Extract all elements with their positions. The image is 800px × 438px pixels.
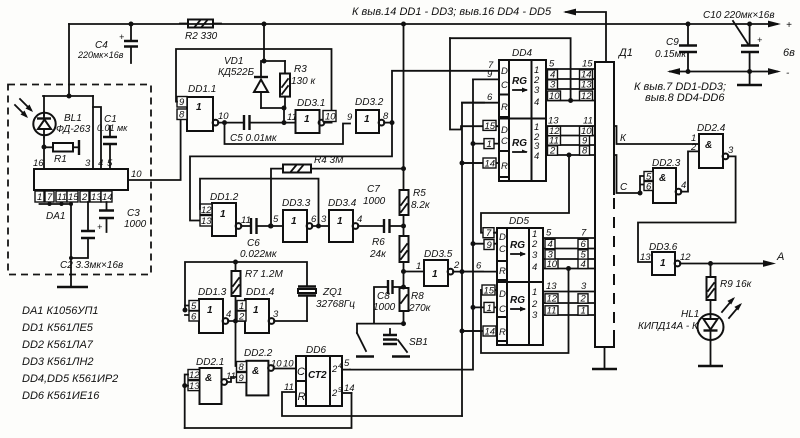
svg-text:&: & [205, 373, 212, 384]
svg-text:RG: RG [510, 240, 525, 251]
wire DD5 q1 row [543, 228, 595, 239]
svg-text:RG: RG [512, 138, 527, 149]
wire DD5 q5 row [543, 281, 595, 292]
svg-text:270к: 270к [408, 303, 432, 314]
svg-text:1: 1 [37, 192, 42, 203]
wire DD2.4 out loop to DD3.6 [638, 156, 736, 262]
wire DD5 clock taps [471, 241, 498, 310]
LED HL1 [638, 309, 724, 366]
wire DD5 C input pin9 [484, 240, 494, 252]
node K vyv.7 label [634, 81, 726, 104]
wire DD3.2 output to DD4 D and osc2 [190, 71, 499, 221]
svg-text:1: 1 [416, 261, 421, 272]
wire DD4 q5 row [546, 116, 595, 127]
wire DD4 R input pin6 [462, 92, 499, 103]
photodiode BL1 [33, 112, 90, 138]
wire DD3.3 feedback to DD1.2 pin12 [200, 179, 319, 226]
svg-text:2: 2 [453, 260, 460, 271]
svg-text:DD2.4: DD2.4 [697, 123, 726, 134]
svg-text:R: R [501, 161, 508, 172]
wire DA1 pin10 output [128, 115, 187, 181]
svg-text:2: 2 [549, 146, 556, 157]
gate DD3.3 [282, 198, 329, 242]
svg-text:R5: R5 [413, 188, 426, 199]
svg-text:R: R [499, 266, 506, 277]
gate DD1.1 [177, 84, 229, 131]
svg-text:9: 9 [487, 240, 493, 251]
svg-text:КИПД14А - К: КИПД14А - К [638, 321, 699, 332]
svg-text:DD1.4: DD1.4 [246, 287, 275, 298]
capacitor C9 [655, 24, 697, 72]
wire DD4 q2 row [546, 70, 595, 81]
svg-text:К выв.14 DD1 - DD3; выв.16 DD4: К выв.14 DD1 - DD3; выв.16 DD4 - DD5 [352, 6, 552, 18]
svg-text:С9: С9 [666, 37, 679, 48]
svg-text:С7: С7 [367, 184, 380, 195]
svg-text:C: C [501, 136, 508, 147]
svg-text:2: 2 [580, 294, 587, 305]
svg-text:8: 8 [582, 146, 588, 157]
wire DD4 C input pin9 [473, 69, 499, 80]
node light arrows into BL1 [15, 99, 33, 118]
gate DD2.4 [690, 123, 734, 168]
svg-text:6: 6 [581, 239, 587, 250]
gate DD1.2 [200, 192, 251, 236]
svg-text:4: 4 [681, 180, 686, 191]
svg-text:1: 1 [304, 114, 310, 125]
wire DA1 ground bus [40, 202, 74, 286]
svg-text:4: 4 [534, 151, 539, 162]
svg-text:10: 10 [283, 359, 294, 370]
svg-text:Д1: Д1 [617, 47, 633, 59]
svg-text:SB1: SB1 [409, 337, 428, 348]
svg-text:0.15мк: 0.15мк [655, 49, 687, 60]
svg-text:14: 14 [485, 159, 496, 170]
svg-text:9: 9 [239, 373, 245, 384]
svg-text:4: 4 [532, 262, 537, 273]
wire DD2.1 inputs tied [182, 375, 188, 429]
svg-text:DD2.2: DD2.2 [244, 348, 273, 359]
svg-text:11: 11 [583, 116, 593, 127]
svg-text:1: 1 [337, 216, 343, 227]
svg-text:3: 3 [532, 250, 538, 261]
svg-text:1: 1 [432, 269, 438, 280]
svg-text:DD6: DD6 [306, 345, 326, 356]
svg-text:С3: С3 [127, 208, 140, 219]
capacitor C7 [363, 184, 406, 233]
svg-text:3: 3 [321, 214, 327, 225]
svg-text:12: 12 [680, 252, 691, 263]
wire DD4 cascade D2 pin15 [450, 38, 499, 132]
svg-text:12: 12 [547, 294, 558, 305]
svg-text:C: C [297, 366, 305, 378]
svg-text:220мк×16в: 220мк×16в [77, 50, 124, 60]
svg-text:5: 5 [549, 59, 555, 70]
svg-text:11: 11 [57, 192, 67, 203]
svg-text:7: 7 [581, 228, 587, 239]
wire rail to R5 column [403, 24, 405, 190]
svg-text:DD1.2: DD1.2 [210, 192, 239, 203]
svg-text:10: 10 [325, 112, 336, 123]
svg-text:5: 5 [107, 158, 113, 169]
svg-text:1: 1 [196, 102, 202, 113]
wire DD6 reset from bottom bus [282, 392, 462, 416]
svg-text:DD3.3: DD3.3 [282, 198, 311, 209]
svg-text:5: 5 [344, 358, 350, 369]
gate DD3.4 [328, 198, 384, 242]
svg-text:3: 3 [532, 310, 538, 321]
svg-text:9: 9 [179, 97, 185, 108]
svg-text:C: C [499, 244, 506, 255]
svg-text:BL1: BL1 [64, 113, 82, 124]
svg-text:4: 4 [581, 259, 586, 270]
svg-text:3: 3 [534, 85, 540, 96]
svg-text:13: 13 [581, 80, 592, 91]
svg-text:14: 14 [344, 383, 355, 394]
wire DD4 clock branch pin1 [471, 141, 500, 146]
capacitor C5 [230, 115, 296, 144]
svg-text:4: 4 [534, 97, 539, 108]
svg-text:DD1.1: DD1.1 [188, 84, 216, 95]
svg-text:130 к: 130 к [291, 76, 316, 87]
svg-text:1000: 1000 [124, 219, 147, 230]
op-amp DA1 [33, 158, 128, 222]
svg-text:4: 4 [226, 309, 231, 320]
wire crystal osc input net [183, 260, 308, 316]
gate DD1.4 [237, 287, 307, 333]
wire rail drop to sensor box [68, 24, 70, 96]
svg-text:R8: R8 [411, 291, 424, 302]
gate DD2.1 [188, 357, 237, 404]
svg-text:6: 6 [476, 261, 482, 272]
svg-text:13: 13 [189, 381, 200, 392]
svg-text:8: 8 [179, 110, 185, 121]
svg-text:6в: 6в [783, 47, 795, 59]
wire DD4 R2 input pin14 [462, 158, 499, 170]
wire DD4 q4 row [546, 91, 595, 103]
svg-text:12: 12 [189, 370, 200, 381]
svg-text:13: 13 [546, 281, 557, 292]
svg-text:14: 14 [485, 327, 496, 338]
svg-text:КД522Б: КД522Б [218, 67, 255, 78]
svg-text:10: 10 [547, 259, 558, 270]
svg-text:C: C [501, 80, 508, 91]
wire DD1.1 feedback from DD3.1 [176, 49, 332, 123]
svg-text:DD1.3: DD1.3 [198, 287, 227, 298]
svg-text:С8: С8 [377, 291, 390, 302]
wire DD1.1 output node [218, 120, 350, 144]
svg-text:DD3.4: DD3.4 [328, 198, 357, 209]
svg-text:5: 5 [546, 228, 552, 239]
svg-text:32768Гц: 32768Гц [316, 299, 355, 310]
capacitor C6 [240, 214, 283, 260]
svg-text:С2 3.3мк×16в: С2 3.3мк×16в [60, 260, 123, 271]
wire DD5 D input pin7 [483, 228, 497, 239]
wire DD4 q8 row [546, 146, 595, 158]
wire DD5 q6 row [543, 294, 595, 305]
capacitor C2 [60, 202, 123, 271]
svg-text:13: 13 [548, 116, 559, 127]
svg-text:DD3.5: DD3.5 [424, 249, 453, 260]
svg-text:С: С [620, 182, 628, 193]
gate DD3.5 [401, 249, 497, 286]
wire DD4 q1 row [546, 59, 595, 70]
wire DD5 D2 input pin15 [481, 285, 497, 297]
wire DD1.3 out to DD1.4 [228, 319, 245, 367]
register DD4 [499, 48, 546, 181]
svg-text:3: 3 [273, 309, 279, 320]
wire DD4 q3 row [546, 80, 595, 91]
svg-text:15: 15 [582, 59, 593, 70]
svg-text:1: 1 [487, 139, 492, 150]
svg-text:15: 15 [68, 192, 79, 203]
svg-text:11: 11 [287, 112, 297, 123]
svg-text:4: 4 [357, 214, 362, 225]
svg-text:DD3.1: DD3.1 [297, 98, 325, 109]
gate DD1.3 [189, 287, 231, 333]
wire DD5 C2 input pin1 [484, 302, 494, 313]
wire DD5 cascade [481, 269, 569, 354]
wire DD6 q4 to DD4 clock column [350, 79, 473, 369]
svg-text:2: 2 [531, 299, 538, 310]
svg-text:1: 1 [660, 258, 666, 269]
svg-text:&: & [705, 140, 712, 151]
svg-text:1: 1 [487, 303, 492, 314]
capacitor C3 [99, 202, 147, 232]
svg-text:ZQ1: ZQ1 [322, 287, 342, 298]
svg-text:8: 8 [383, 111, 389, 122]
svg-text:0.022мк: 0.022мк [240, 249, 278, 260]
svg-text:RG: RG [510, 295, 525, 306]
wire DD5 R2 input pin14 [462, 326, 497, 338]
wire DD4 q6 row [546, 126, 595, 137]
ground [57, 286, 88, 288]
svg-text:&: & [659, 173, 666, 184]
wire DD4 D input pin7 [488, 60, 494, 71]
node parts list [22, 305, 118, 402]
gate DD2.2 [237, 348, 297, 395]
wire K tap from D1 [614, 126, 694, 144]
svg-text:13: 13 [640, 252, 651, 263]
svg-text:RG: RG [512, 76, 527, 87]
svg-text:7: 7 [47, 192, 53, 203]
diode VD1 [218, 24, 285, 108]
svg-text:1: 1 [364, 114, 370, 125]
svg-text:DА1 К1056УП1: DА1 К1056УП1 [22, 305, 99, 317]
svg-text:3: 3 [581, 281, 587, 292]
wire DD4 to DD5 cascade [481, 155, 569, 233]
svg-text:R7 1.2М: R7 1.2М [245, 269, 283, 280]
capacitor C1 [97, 114, 128, 169]
svg-text:D: D [501, 66, 508, 77]
display D1 [592, 47, 633, 369]
wire DD5 q2 row [543, 239, 595, 250]
wire DD5 q7 row [543, 306, 595, 317]
svg-text:DD6 К561ИЕ16: DD6 К561ИЕ16 [22, 390, 100, 402]
svg-text:С6: С6 [247, 238, 260, 249]
wire VD1 R3 bottom junction [261, 106, 287, 126]
svg-text:СТ2: СТ2 [308, 370, 327, 381]
svg-text:DD4,DD5 К561ИР2: DD4,DD5 К561ИР2 [22, 373, 118, 385]
svg-text:10: 10 [271, 359, 282, 370]
svg-text:DD2 К561ЛА7: DD2 К561ЛА7 [22, 339, 94, 351]
svg-text:16: 16 [33, 158, 44, 169]
svg-text:DD3.2: DD3.2 [355, 97, 384, 108]
wire DD5 R input pin6 [476, 261, 482, 272]
svg-text:1: 1 [253, 305, 259, 316]
svg-text:DD3 К561ЛН2: DD3 К561ЛН2 [22, 356, 94, 368]
svg-text:1: 1 [207, 305, 213, 316]
svg-text:7: 7 [486, 228, 492, 239]
svg-text:15: 15 [484, 286, 495, 297]
svg-text:С10 220мк×16в: С10 220мк×16в [703, 10, 775, 21]
wire DA1 pin3 pin4 [93, 96, 101, 169]
svg-text:1: 1 [581, 306, 586, 317]
svg-text:D: D [499, 232, 506, 243]
svg-text:ФД-263: ФД-263 [56, 124, 91, 135]
pushbutton SB1 [356, 324, 428, 357]
register DD5 [497, 216, 543, 345]
svg-text:R: R [501, 102, 508, 113]
svg-text:5: 5 [273, 214, 279, 225]
crystal ZQ1 [298, 287, 355, 322]
wire sensor top [43, 94, 93, 116]
svg-text:6: 6 [311, 214, 317, 225]
node sensor box dashed [8, 85, 151, 275]
resistor R1 [42, 138, 80, 170]
svg-text:R6: R6 [372, 237, 385, 248]
svg-text:10: 10 [549, 91, 560, 102]
wire DD4 q7 row [546, 136, 595, 147]
svg-text:+: + [757, 35, 762, 45]
gate DD3.6 [640, 242, 691, 275]
svg-text:15: 15 [485, 121, 496, 132]
svg-text:10: 10 [131, 169, 142, 180]
svg-text:6: 6 [646, 182, 652, 193]
wire DD6 q9 to DD2.1 bus [185, 393, 352, 428]
wire DD3.6 output to A [680, 251, 784, 267]
svg-text:D: D [501, 125, 508, 136]
wire DD4 cascade loop top [450, 38, 571, 100]
resistor R3 [280, 61, 316, 108]
svg-text:3: 3 [728, 145, 734, 156]
svg-text:R: R [499, 327, 506, 338]
resistor R5 [400, 188, 431, 236]
resistor R4 [269, 155, 407, 229]
svg-text:6: 6 [487, 92, 493, 103]
svg-text:1: 1 [220, 209, 226, 220]
svg-text:R2 330: R2 330 [185, 31, 218, 42]
svg-text:13: 13 [201, 216, 212, 227]
gate DD2.3 [644, 151, 699, 203]
svg-text:R9 16к: R9 16к [720, 279, 753, 290]
svg-text:А: А [776, 251, 784, 263]
wire DD5 q4 row [543, 259, 595, 271]
svg-text:8.2к: 8.2к [411, 200, 431, 211]
resistor R6 [369, 236, 409, 288]
svg-text:R: R [298, 391, 306, 403]
svg-text:&: & [252, 366, 259, 377]
capacitor C8 [373, 280, 406, 324]
svg-text:24к: 24к [369, 249, 387, 260]
svg-text:1000: 1000 [363, 196, 386, 207]
svg-text:D: D [499, 289, 506, 300]
svg-text:1000: 1000 [373, 302, 396, 313]
resistor R2 [180, 20, 221, 43]
svg-text:HL1: HL1 [681, 309, 699, 320]
svg-text:+: + [119, 32, 124, 42]
resistor R8 [400, 288, 432, 326]
svg-text:2: 2 [81, 192, 88, 203]
svg-text:3: 3 [550, 80, 556, 91]
wire DD4 C2 input pin1 [484, 139, 494, 150]
wire C tap from D1 [614, 155, 644, 196]
node DA1 bottom pins [35, 191, 113, 203]
node K vyv.14 supply label with arrow [352, 6, 606, 62]
svg-text:VD1: VD1 [224, 56, 243, 67]
wire DD5 q3 row [543, 250, 595, 261]
wire +6V top rail [69, 20, 792, 31]
svg-text:DD4: DD4 [512, 48, 532, 59]
resistor R7 [232, 262, 284, 321]
svg-text:2: 2 [531, 239, 538, 250]
svg-text:3: 3 [85, 158, 91, 169]
svg-text:11: 11 [547, 306, 557, 317]
svg-text:12: 12 [581, 91, 592, 102]
svg-text:C: C [499, 304, 506, 315]
svg-text:9: 9 [487, 69, 493, 80]
svg-text:8: 8 [239, 362, 245, 373]
svg-text:12: 12 [201, 205, 212, 216]
resistor R9 [707, 264, 753, 315]
svg-text:4: 4 [548, 239, 553, 250]
svg-text:1: 1 [532, 287, 537, 298]
gate DD3.2 [347, 97, 395, 133]
svg-text:1: 1 [291, 216, 297, 227]
svg-text:2: 2 [238, 312, 245, 323]
svg-text:С5 0.01мк: С5 0.01мк [230, 133, 278, 144]
wire minus rail [667, 68, 790, 79]
svg-text:2: 2 [331, 364, 338, 375]
svg-text:+: + [786, 20, 792, 31]
svg-text:DD2.1: DD2.1 [196, 357, 224, 368]
svg-text:R3: R3 [294, 64, 307, 75]
svg-text:DD5: DD5 [509, 216, 529, 227]
svg-text:+: + [97, 222, 102, 232]
capacitor C4 [77, 24, 138, 63]
svg-text:4: 4 [98, 158, 103, 169]
svg-text:R1: R1 [54, 154, 67, 165]
svg-text:DА1: DА1 [46, 211, 65, 222]
node light arrows from HL1 [722, 297, 742, 318]
svg-text:2: 2 [331, 388, 338, 399]
gate DD3.1 [287, 98, 336, 133]
svg-text:DD1 К561ЛЕ5: DD1 К561ЛЕ5 [22, 322, 94, 334]
counter DD6 [271, 345, 355, 406]
svg-text:выв.8 DD4-DD6: выв.8 DD4-DD6 [645, 92, 725, 104]
svg-text:9: 9 [347, 112, 353, 123]
svg-text:11: 11 [241, 215, 251, 226]
svg-text:6: 6 [191, 312, 197, 323]
svg-text:R4 3М: R4 3М [314, 155, 344, 166]
wire reset column [460, 103, 485, 416]
capacitor C10 [703, 10, 775, 85]
